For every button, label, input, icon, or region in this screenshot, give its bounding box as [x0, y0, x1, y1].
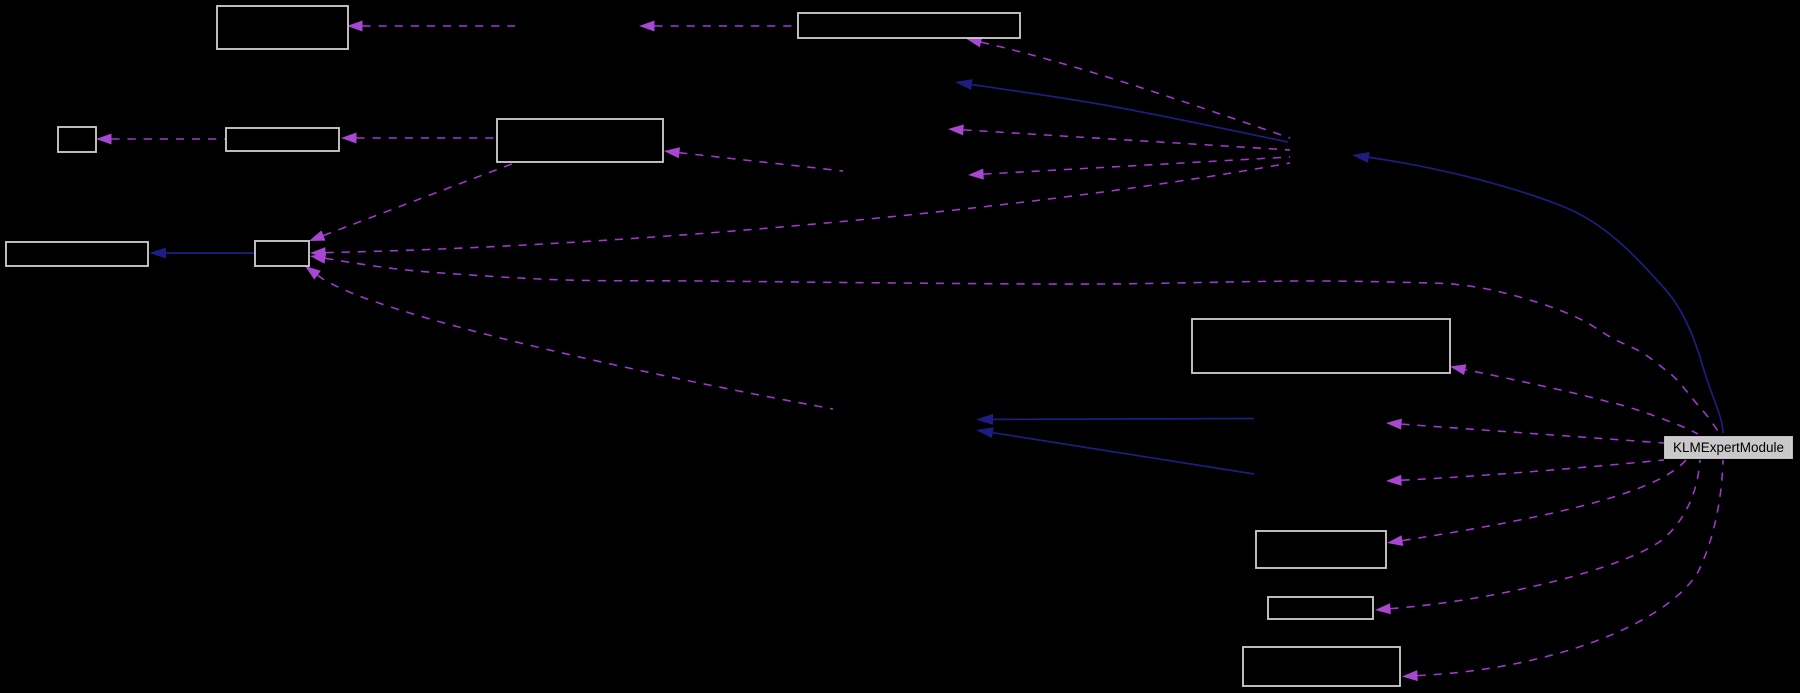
edge invis5 to invis6 (blue 1): [976, 414, 1254, 425]
node C (empty): [58, 127, 96, 152]
node A (empty): [217, 6, 348, 49]
node L (empty): [1243, 647, 1400, 686]
edge invis2 to E: [664, 147, 843, 171]
node G (empty): [255, 241, 309, 266]
node B (empty): [798, 13, 1020, 38]
edge hub to invis2b: [948, 125, 1290, 151]
node J (empty): [1256, 531, 1386, 568]
edge B to invis1: [639, 21, 797, 32]
node K (empty): [1268, 597, 1373, 619]
edge G to F (blue): [149, 248, 254, 259]
node F (empty): [6, 242, 148, 266]
edge KLM to hub (blue curve): [1352, 152, 1723, 433]
edge KLM to H: [1450, 364, 1698, 434]
edge hub to B bottom: [966, 37, 1290, 138]
edge E to D: [341, 133, 496, 144]
edge hub to invis2c: [968, 157, 1290, 180]
edge hub to invis2a (blue): [955, 79, 1288, 142]
edge KLM to G (long): [310, 253, 1720, 434]
edge KLM to invis4b: [1386, 460, 1664, 486]
edge E to G: [309, 162, 517, 241]
node KLMExpertModule (current class, grey): [1665, 437, 1792, 458]
node E (empty): [497, 119, 663, 162]
node D (empty): [226, 128, 339, 151]
edge hub to G: [310, 163, 1290, 258]
node H (empty): [1192, 319, 1450, 373]
edge KLM to invis4a: [1386, 419, 1664, 443]
edge KLM to L: [1402, 460, 1723, 681]
edge invis1 to A: [347, 21, 515, 32]
edge KLM to J: [1387, 460, 1686, 546]
edge invis3 to G: [305, 266, 833, 409]
svg-text:KLMExpertModule: KLMExpertModule: [1673, 440, 1784, 455]
edge invis5 to invis6 (blue 2): [976, 427, 1254, 474]
edge D to C: [96, 134, 225, 145]
edge KLM to K: [1375, 460, 1700, 614]
